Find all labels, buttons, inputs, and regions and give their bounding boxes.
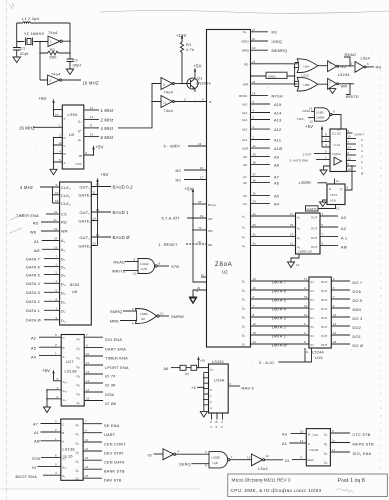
- svg-text:17: 17: [200, 176, 204, 180]
- resistor RP2: [185, 365, 209, 376]
- svg-text:13: 13: [336, 207, 340, 211]
- node SMRQ (U7A in): [110, 307, 137, 314]
- wire R1 to inv1 out: [181, 56, 183, 83]
- nor gate U7A: [136, 309, 170, 324]
- crystal Y1 label: [24, 32, 45, 36]
- svg-text:4-WAITR: 4-WAITR: [299, 181, 312, 185]
- node WR boxed: [341, 84, 348, 88]
- node CEN STAT: [83, 447, 124, 455]
- svg-text:AØ: AØ: [34, 440, 40, 444]
- svg-text:AØ: AØ: [34, 249, 40, 253]
- svg-text:TIMER ENA: TIMER ENA: [105, 357, 128, 361]
- node A3 out: [320, 212, 346, 220]
- svg-text:16 MHZ: 16 MHZ: [19, 126, 35, 131]
- svg-text:M₁: M₁: [243, 30, 247, 34]
- svg-text:MRE: MRE: [110, 320, 119, 324]
- svg-text:2o: 2o: [252, 37, 256, 41]
- node STB (U16): [32, 453, 61, 460]
- svg-text:IO: IO: [32, 466, 37, 470]
- node A0 (U16): [34, 437, 61, 444]
- node RD (timer): [33, 218, 60, 226]
- svg-text:G1 G2: G1 G2: [332, 132, 341, 136]
- svg-text:DO6: DO6: [353, 290, 362, 294]
- svg-text:A6: A6: [274, 182, 279, 186]
- svg-text:16 MHZ: 16 MHZ: [83, 81, 99, 86]
- svg-text:32: 32: [253, 223, 257, 227]
- svg-text:30pf: 30pf: [73, 64, 82, 68]
- node 16MHZ out: [83, 81, 99, 86]
- node RD boxed: [341, 65, 347, 69]
- svg-text:MRQ: MRQ: [242, 49, 250, 53]
- svg-text:19: 19: [337, 128, 341, 132]
- svg-text:74o4: 74o4: [48, 31, 57, 35]
- svg-text:SIO ENA: SIO ENA: [105, 338, 122, 342]
- node 2MHZ: [84, 115, 114, 122]
- pin 11 +5V: [201, 273, 207, 277]
- counter U5 LS93: [62, 105, 84, 169]
- svg-text:18: 18: [333, 340, 337, 344]
- svg-text:B: B: [216, 420, 218, 424]
- node +5V (U19): [197, 356, 205, 368]
- node +5V (U5 right): [84, 145, 104, 156]
- ground (C1): [13, 57, 21, 63]
- svg-text:OUT: OUT: [321, 280, 328, 284]
- buffer LS244 (WR): [328, 78, 354, 89]
- svg-text:IO: IO: [148, 454, 153, 458]
- svg-text:16: 16: [200, 166, 204, 170]
- svg-text:GATE₁: GATE₁: [79, 220, 92, 224]
- svg-text:A15: A15: [274, 103, 282, 107]
- flipflop U18 LS74: [327, 179, 345, 205]
- node 4-WAITR: [299, 181, 328, 185]
- node IORQ boxed: [251, 72, 295, 78]
- svg-text:14: 14: [300, 439, 304, 443]
- svg-text:74o4: 74o4: [51, 73, 60, 77]
- inverter 74S04 B label: [51, 73, 60, 77]
- svg-text:CLK₂: CLK₂: [61, 202, 71, 206]
- node A1 (timer): [34, 237, 60, 245]
- svg-text:35: 35: [253, 192, 257, 196]
- and gate U1: [205, 450, 252, 468]
- node WRITE (U7B in): [112, 270, 138, 276]
- svg-text:DATA 2: DATA 2: [26, 300, 40, 304]
- svg-text:37: 37: [253, 173, 257, 177]
- svg-text:DO Ø: DO Ø: [353, 344, 364, 348]
- decoder U17 LS138: [61, 335, 84, 407]
- svg-text:A3: A3: [282, 432, 287, 436]
- svg-text:21: 21: [252, 60, 256, 64]
- node WR pin22: [243, 80, 298, 87]
- svg-text:IORQ: IORQ: [241, 40, 249, 44]
- svg-text:G₂₁: G₂₁: [63, 380, 68, 384]
- svg-text:RD: RD: [33, 222, 39, 226]
- svg-text:15: 15: [304, 295, 308, 299]
- decoder U16 LS138: [61, 419, 83, 481]
- svg-text:12: 12: [310, 120, 314, 124]
- svg-text:A7: A7: [274, 176, 279, 180]
- svg-text:A14: A14: [242, 111, 248, 115]
- svg-text:1o: 1o: [210, 368, 214, 372]
- svg-text:6,7,8-IOT: 6,7,8-IOT: [162, 217, 181, 221]
- inverter U18A: [163, 449, 209, 460]
- svg-text:DEV STAT: DEV STAT: [104, 451, 124, 455]
- resistor R1 560: [40, 48, 70, 60]
- wire U19 bottom pins: [210, 413, 224, 429]
- svg-text:DATA 3: DATA 3: [272, 316, 286, 320]
- ground (U12): [320, 166, 330, 175]
- svg-text:DO2: DO2: [353, 326, 362, 330]
- svg-text:12: 12: [348, 157, 352, 161]
- node IO (inverter in): [148, 454, 164, 458]
- svg-text:OUT₁: OUT₁: [80, 211, 91, 215]
- svg-text:DATA 1: DATA 1: [272, 334, 286, 338]
- node WRITE: [346, 83, 360, 99]
- node 3-AXIO: [259, 348, 312, 365]
- or gate U9B: [295, 77, 327, 91]
- svg-text:U15: U15: [315, 356, 323, 360]
- svg-text:74o4: 74o4: [164, 91, 173, 95]
- page left edge fold line: [6, 0, 8, 500]
- node A7: [243, 173, 279, 180]
- svg-text:BANK STB: BANK STB: [104, 470, 125, 474]
- svg-text:A11: A11: [274, 139, 281, 143]
- svg-text:A14: A14: [274, 112, 282, 116]
- svg-text:A₁: A₁: [61, 239, 66, 243]
- svg-text:AØ: AØ: [341, 245, 347, 249]
- svg-text:13: 13: [86, 379, 90, 383]
- svg-text:Q₁: Q₁: [324, 442, 327, 446]
- svg-text:IN: IN: [311, 325, 314, 329]
- node DATA (U10 in): [303, 107, 315, 114]
- node RFSH: [239, 91, 283, 98]
- svg-text:SIO₂ ENA: SIO₂ ENA: [353, 452, 372, 456]
- svg-text:DATA 5: DATA 5: [26, 273, 40, 277]
- node DATA2 out: [347, 157, 364, 165]
- svg-text:M1: M1: [272, 31, 278, 35]
- svg-text:D₇: D₇: [242, 279, 245, 283]
- svg-text:CEN CONT: CEN CONT: [104, 442, 126, 446]
- svg-text:RE: RE: [208, 243, 212, 247]
- svg-text:3o: 3o: [253, 242, 257, 246]
- svg-text:+5V: +5V: [42, 368, 50, 373]
- svg-text:U18: U18: [330, 199, 336, 203]
- svg-text:GATE₀: GATE₀: [79, 194, 92, 198]
- svg-text:+5V: +5V: [185, 187, 193, 192]
- svg-text:B: B: [64, 152, 66, 156]
- svg-text:DO1: DO1: [353, 335, 362, 339]
- page top edge scan line: [100, 11, 389, 14]
- svg-text:DAV STB: DAV STB: [104, 479, 122, 483]
- node UART: [83, 429, 116, 437]
- wire osc right vertical: [69, 23, 71, 59]
- svg-text:IO5#: IO5#: [105, 393, 115, 397]
- svg-text:1- RESET: 1- RESET: [159, 243, 179, 247]
- node RD pin21: [244, 60, 298, 67]
- svg-text:U9B: U9B: [304, 83, 310, 87]
- svg-text:BAUD Ø: BAUD Ø: [113, 235, 131, 240]
- node DATA0 out: [347, 167, 365, 175]
- node 1MHZ: [84, 106, 114, 113]
- svg-text:D₁: D₁: [242, 333, 245, 337]
- svg-text:D₃: D₃: [61, 291, 66, 295]
- node A4 (U17): [31, 352, 61, 360]
- node A3 (U14): [282, 430, 306, 437]
- svg-text:4.7k: 4.7k: [186, 48, 194, 52]
- svg-text:GATE₂: GATE₂: [79, 245, 92, 249]
- svg-text:READ: READ: [345, 53, 357, 57]
- svg-text:RD: RD: [61, 221, 67, 225]
- svg-text:U₁B: U₁B: [213, 461, 218, 465]
- svg-text:LSØØ: LSØØ: [212, 456, 221, 460]
- pin 6 phi: [202, 98, 212, 105]
- node A1 (U16): [34, 428, 61, 435]
- svg-text:21: 21: [54, 210, 58, 214]
- svg-text:4 MHz: 4 MHz: [101, 126, 114, 131]
- stray pencil marks left: [10, 214, 24, 233]
- svg-text:A5: A5: [31, 347, 36, 351]
- node IO (U14 ena): [285, 456, 306, 463]
- title line 1: [232, 478, 365, 485]
- svg-text:3o: 3o: [253, 212, 257, 216]
- svg-text:U5: U5: [69, 133, 74, 137]
- node +5 (U19 strap): [191, 386, 204, 390]
- svg-text:20pf: 20pf: [20, 52, 29, 56]
- title block box: [228, 474, 387, 497]
- svg-text:SE ENA: SE ENA: [104, 424, 120, 428]
- svg-text:A 1: A 1: [341, 236, 347, 240]
- svg-text:D₆: D₆: [61, 266, 66, 270]
- svg-text:Q₇: Q₇: [77, 401, 80, 405]
- node DATA4 (timer): [26, 279, 60, 286]
- svg-text:3 - AₓIO: 3 - AₓIO: [259, 361, 274, 365]
- svg-text:1 MHz: 1 MHz: [101, 108, 114, 113]
- node DAV STB: [83, 474, 122, 482]
- buffer U15 LS244: [309, 277, 331, 348]
- svg-text:2b: 2b: [198, 240, 202, 244]
- svg-text:CLRNT: CLRNT: [307, 207, 317, 211]
- node DATA4 out: [347, 146, 364, 154]
- capacitor C2: [67, 59, 82, 70]
- svg-text:17: 17: [290, 212, 294, 216]
- svg-text:IN: IN: [311, 334, 314, 338]
- svg-text:16: 16: [348, 135, 352, 139]
- ground (U18): [320, 200, 328, 207]
- small triangle marker: [329, 89, 336, 94]
- svg-text:DO 5: DO 5: [353, 299, 363, 303]
- node CURNT: [306, 205, 340, 212]
- svg-text:U7B: U7B: [141, 267, 147, 271]
- title line 2: [231, 488, 354, 494]
- svg-text:G₁: G₁: [62, 474, 65, 478]
- node DATA5 (timer): [26, 271, 60, 278]
- svg-text:+5V: +5V: [305, 124, 313, 129]
- inductor L1 label: [22, 17, 40, 21]
- svg-text:A6: A6: [164, 367, 169, 371]
- svg-text:LS244: LS244: [332, 152, 341, 156]
- node A6: [243, 179, 279, 186]
- svg-text:74o4: 74o4: [164, 109, 173, 113]
- svg-text:G₁: G₁: [63, 398, 66, 402]
- node DATA0 row: [242, 340, 309, 347]
- wire U17 enable strap: [46, 386, 61, 407]
- svg-text:U6: U6: [72, 290, 77, 294]
- svg-text:U-12: U-12: [334, 143, 341, 147]
- node 1-RESET: [159, 240, 213, 247]
- node DATA6 (timer): [26, 263, 60, 270]
- svg-text:14: 14: [253, 340, 257, 344]
- inverter 74S04 A: [40, 36, 70, 47]
- svg-text:OUT: OUT: [321, 289, 328, 293]
- node READ (U7B in): [114, 258, 139, 265]
- node 2-CNT: [303, 150, 331, 157]
- inverter 74S04 A label: [48, 31, 57, 35]
- node A0 (timer): [34, 245, 60, 253]
- ground (near U8): [190, 289, 199, 303]
- node A0 out: [320, 242, 347, 250]
- svg-text:WR: WR: [243, 82, 249, 86]
- svg-text:13: 13: [253, 277, 257, 281]
- svg-text:NC: NC: [176, 179, 182, 183]
- node DATA1 out: [347, 162, 364, 170]
- node IO7: [84, 370, 116, 379]
- svg-text:14: 14: [333, 322, 337, 326]
- svg-text:18: 18: [348, 167, 352, 171]
- node BANK STB: [83, 465, 125, 473]
- svg-text:A1: A1: [34, 240, 39, 244]
- node IO (U16): [32, 462, 61, 469]
- node DO2: [331, 322, 361, 330]
- svg-text:DATA 4: DATA 4: [272, 307, 286, 311]
- capacitor C1: [13, 42, 29, 58]
- svg-text:OUT₀: OUT₀: [80, 186, 91, 190]
- svg-text:WE: WE: [30, 231, 37, 235]
- resistor R1 4.7k: [180, 42, 194, 56]
- node A14: [242, 109, 282, 116]
- svg-text:2- AUTO ENA: 2- AUTO ENA: [290, 158, 309, 162]
- svg-text:A₁: A₁: [297, 215, 300, 219]
- svg-text:U19A: U19A: [214, 379, 225, 383]
- node +5V (Q1): [194, 64, 202, 79]
- timer U6 8253: [60, 182, 92, 325]
- svg-text:CEN DATA: CEN DATA: [104, 461, 125, 465]
- svg-text:IN: IN: [311, 289, 314, 293]
- svg-text:14: 14: [90, 132, 94, 136]
- svg-text:Mɪcɪo Dɫcɪsɪoɴ̱ MD11 REV 3: Mɪcɪo Dɫcɪsɪoɴ̱ MD11 REV 3: [232, 478, 291, 483]
- svg-text:IN: IN: [311, 280, 314, 284]
- svg-text:OUT: OUT: [321, 343, 328, 347]
- node DATA1 (timer): [26, 306, 60, 313]
- inverter 74S04 B: [40, 75, 81, 85]
- node IO5: [84, 388, 115, 397]
- svg-text:DATA 3: DATA 3: [26, 291, 40, 295]
- pin 17 NMI: [192, 226, 213, 233]
- svg-text:CPU, DME, & IO ʠɫcoʠɪɴɢ ʟoɢɪc: CPU, DME, & IO ʠɫcoʠɪɴɢ ʟoɢɪc 10/83: [231, 488, 322, 494]
- svg-text:10: 10: [85, 438, 89, 442]
- node READ: [344, 53, 356, 67]
- svg-text:14: 14: [55, 113, 59, 117]
- svg-text:OUT: OUT: [311, 226, 318, 230]
- svg-text:13: 13: [309, 107, 313, 111]
- cpu U2 Z80A box: [207, 30, 251, 348]
- svg-text:OUT: OUT: [321, 316, 328, 320]
- svg-text:15: 15: [85, 474, 89, 478]
- node 2-AUTO ENA: [290, 156, 331, 163]
- wire osc left vertical: [39, 41, 41, 80]
- node 16MHZ in: [19, 124, 62, 131]
- svg-text:L1 2.2µH: L1 2.2µH: [22, 17, 40, 21]
- svg-text:A15: A15: [242, 102, 248, 106]
- buffer U13 LS244: [296, 213, 321, 254]
- buffer LS244 (RD): [328, 61, 354, 72]
- svg-text:U17: U17: [66, 360, 74, 364]
- svg-text:TIMER ENA: TIMER ENA: [16, 214, 39, 218]
- node BAUD 0,2: [91, 183, 133, 190]
- svg-text:LSØ2: LSØ2: [140, 312, 148, 316]
- pin 25 BUSRQ: [192, 200, 216, 207]
- svg-text:CLK₀: CLK₀: [61, 186, 71, 190]
- node A13: [242, 116, 282, 123]
- svg-text:10: 10: [160, 312, 164, 316]
- node DATA1 row: [242, 331, 309, 338]
- svg-text:LS138: LS138: [63, 448, 75, 452]
- node DART ENA: [84, 343, 126, 351]
- node DATA0 (timer): [26, 316, 60, 323]
- node NC 17: [176, 176, 207, 183]
- svg-text:WRITE: WRITE: [346, 95, 360, 99]
- svg-text:CLR: CLR: [76, 162, 83, 166]
- or gate U9A: [295, 59, 327, 73]
- svg-text:C1: C1: [20, 47, 25, 51]
- svg-text:A13: A13: [242, 118, 248, 122]
- svg-text:18: 18: [252, 91, 256, 95]
- svg-text:LS32: LS32: [302, 73, 309, 77]
- node BAUD 0: [91, 233, 130, 240]
- node A1 out: [320, 233, 347, 241]
- node WR (timer): [30, 227, 60, 235]
- svg-text:DATA 1: DATA 1: [26, 309, 40, 313]
- svg-text:13: 13: [290, 233, 294, 237]
- svg-text:BAUD 0,2: BAUD 0,2: [113, 185, 134, 190]
- svg-text:DATA 5: DATA 5: [272, 298, 286, 302]
- node 8MHZ: [84, 132, 114, 139]
- svg-text:DATA 7: DATA 7: [26, 257, 40, 261]
- svg-text:Y1 16MHZ: Y1 16MHZ: [24, 32, 45, 36]
- svg-text:CTC STB: CTC STB: [353, 433, 371, 437]
- svg-text:UART: UART: [104, 433, 116, 437]
- corner pencil mark: [9, 3, 14, 9]
- svg-text:17: 17: [304, 277, 308, 281]
- svg-text:G₂₀: G₂₀: [63, 389, 68, 393]
- node DO4: [331, 304, 361, 312]
- svg-text:15: 15: [86, 397, 90, 401]
- wire IORQ vertical strap: [294, 64, 299, 87]
- node SMRW out: [171, 315, 184, 319]
- svg-text:Q₁: Q₁: [76, 432, 79, 436]
- svg-text:OUT: OUT: [321, 325, 328, 329]
- svg-text:A: A: [62, 440, 64, 444]
- svg-text:D₄: D₄: [61, 282, 66, 286]
- svg-text:A5: A5: [243, 194, 247, 198]
- node SIO ENA: [84, 333, 122, 342]
- node A1 row: [242, 223, 296, 230]
- node M1: [243, 28, 277, 35]
- svg-text:LS138: LS138: [65, 370, 77, 374]
- svg-text:L5244: L5244: [312, 351, 324, 355]
- svg-text:U8: U8: [141, 317, 145, 321]
- svg-text:WRITE: WRITE: [112, 270, 126, 274]
- svg-text:38: 38: [253, 160, 257, 164]
- label LS244: [338, 73, 350, 77]
